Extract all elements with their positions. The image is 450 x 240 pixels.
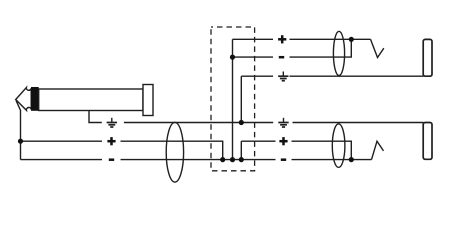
junction dot ground/riser B — [239, 120, 244, 125]
wire minus top — [233, 39, 352, 57]
junction dot minus/riser C — [239, 157, 244, 162]
wire tip drop — [16, 100, 21, 159]
plug P3 shaft end — [423, 123, 432, 160]
minus symbol bottom — [281, 158, 286, 161]
plus symbol left — [107, 137, 115, 145]
wire minus left — [21, 159, 276, 161]
plus symbol top — [278, 35, 286, 43]
wire ground left-to-box — [124, 122, 273, 124]
wire plus left — [21, 141, 223, 159]
junction dot tip/plus — [18, 139, 23, 144]
wire plus top — [233, 38, 371, 40]
wire plus bottom — [241, 141, 351, 159]
riser C (signal to bottom plug) — [240, 141, 242, 159]
wire ground top — [241, 75, 423, 77]
wire ground bottom — [293, 122, 424, 124]
junction dot minus/tie — [220, 157, 225, 162]
plug P2 shaft end — [423, 39, 432, 76]
plus symbol bottom — [279, 137, 287, 145]
plug P1 end cap — [143, 85, 153, 116]
ground symbol bottom — [278, 118, 288, 127]
minus symbol top — [279, 56, 284, 59]
wire minus bottom — [292, 159, 372, 161]
cable ellipse bottom — [332, 124, 345, 168]
tip contact bottom plug — [372, 141, 384, 159]
plug P1 barrel — [39, 89, 143, 111]
solder joint dashed box — [211, 27, 255, 171]
plug P1 tip — [16, 88, 32, 111]
wire sleeve drop — [89, 111, 102, 123]
riser B (ground to top plug) — [240, 76, 242, 122]
ground symbol left — [107, 118, 117, 127]
junction dot top plug tie — [349, 37, 354, 42]
junction dot minus/riser A — [230, 157, 235, 162]
junction dot bottom plug tie — [349, 157, 354, 162]
minus symbol left — [109, 158, 114, 161]
ground symbol top — [278, 72, 288, 81]
cable ellipse left — [166, 122, 183, 182]
cable ellipse top — [333, 31, 344, 75]
plug P1 tip insulator band — [31, 87, 39, 111]
tip contact top plug — [371, 39, 384, 57]
junction dot top minus/riser A — [230, 55, 235, 60]
riser A (tip signal to top plug) — [232, 39, 234, 159]
